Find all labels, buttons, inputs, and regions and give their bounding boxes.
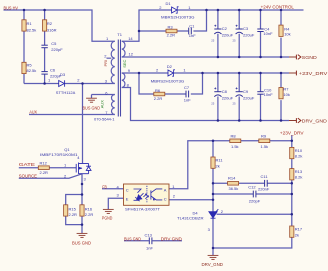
svg-text:10nF: 10nF [263, 31, 273, 36]
svg-text:PRI: PRI [103, 60, 108, 67]
svg-text:10k: 10k [283, 92, 289, 97]
svg-text:36.5k: 36.5k [229, 186, 239, 191]
svg-text:TL431CDBZR: TL431CDBZR [177, 215, 204, 220]
svg-text:MBRS2H100T3G: MBRS2H100T3G [151, 79, 185, 84]
svg-text:1nF: 1nF [146, 245, 153, 250]
svg-text:BUS GND: BUS GND [124, 237, 141, 242]
svg-text:DRV_GND: DRV_GND [202, 262, 224, 267]
svg-text:2k: 2k [216, 163, 220, 168]
svg-text:R5: R5 [27, 62, 33, 67]
svg-text:D2: D2 [167, 64, 173, 69]
svg-text:+23V_DRV: +23V_DRV [299, 71, 328, 76]
svg-text:R6: R6 [155, 88, 161, 93]
svg-text:C13: C13 [145, 232, 153, 237]
svg-text:PGND: PGND [102, 216, 113, 221]
svg-text:T1: T1 [117, 32, 122, 37]
svg-text:2.2R: 2.2R [167, 32, 176, 37]
svg-text:C12: C12 [248, 184, 256, 189]
svg-text:R2: R2 [47, 21, 53, 26]
svg-text:SFH617A-3X007T: SFH617A-3X007T [125, 206, 161, 211]
svg-text:C: C [164, 196, 167, 201]
svg-text:14: 14 [128, 36, 133, 41]
svg-text:C7: C7 [184, 85, 190, 90]
svg-text:10k: 10k [284, 32, 290, 37]
svg-text:AUX: AUX [100, 100, 105, 109]
svg-text:BUS HV: BUS HV [4, 5, 19, 10]
svg-text:R7: R7 [283, 87, 289, 92]
svg-text:220uF: 220uF [243, 32, 255, 37]
svg-text:070-5644-1: 070-5644-1 [94, 116, 115, 121]
svg-text:R14: R14 [228, 176, 236, 181]
svg-text:+23V_DRV: +23V_DRV [280, 131, 304, 136]
svg-text:C2: C2 [222, 26, 228, 31]
svg-text:C9: C9 [243, 89, 249, 94]
svg-text:BUS GND: BUS GND [72, 240, 91, 245]
svg-text:E: E [126, 196, 129, 201]
svg-text:FB: FB [102, 184, 107, 189]
svg-text:DRV GND: DRV GND [161, 237, 182, 242]
svg-text:D1: D1 [166, 1, 172, 6]
svg-text:D3: D3 [60, 72, 66, 77]
svg-text:R12: R12 [40, 160, 48, 165]
svg-text:1nF: 1nF [184, 98, 191, 103]
svg-text:IMBF170R1K0M1: IMBF170R1K0M1 [40, 152, 79, 157]
svg-text:R8: R8 [231, 134, 237, 139]
svg-text:220uF: 220uF [243, 95, 255, 100]
svg-text:2.2R: 2.2R [40, 170, 49, 175]
svg-text:25: 25 [233, 102, 237, 106]
svg-text:A: A [164, 187, 167, 192]
svg-text:+24V CONTROL: +24V CONTROL [261, 5, 295, 10]
svg-text:R11: R11 [216, 157, 224, 162]
svg-text:220uF: 220uF [222, 95, 234, 100]
svg-text:82.5k: 82.5k [27, 28, 37, 33]
svg-text:R3: R3 [168, 24, 174, 29]
svg-text:R10: R10 [295, 148, 303, 153]
svg-text:SOURCE: SOURCE [19, 173, 37, 178]
svg-text:2.2R: 2.2R [154, 96, 163, 101]
svg-text:STTH112A: STTH112A [56, 90, 76, 95]
svg-text:1.5k: 1.5k [231, 144, 239, 149]
svg-text:R15: R15 [69, 206, 77, 211]
svg-text:GATE: GATE [19, 162, 35, 167]
svg-text:C1: C1 [189, 24, 195, 29]
svg-text:10nF: 10nF [264, 92, 274, 97]
svg-text:2k: 2k [295, 232, 299, 237]
svg-text:220pF: 220pF [51, 47, 63, 52]
svg-text:12: 12 [129, 52, 134, 57]
svg-text:8.2k: 8.2k [295, 153, 303, 158]
svg-text:SGND: SGND [302, 55, 318, 60]
svg-text:C3: C3 [243, 26, 249, 31]
svg-text:R1: R1 [27, 21, 33, 26]
svg-text:MBRS2H100T3G: MBRS2H100T3G [161, 15, 195, 20]
svg-text:2.2R: 2.2R [85, 212, 94, 217]
svg-text:C6: C6 [50, 67, 56, 72]
svg-text:25: 25 [211, 39, 215, 43]
svg-text:DRV_GND: DRV_GND [302, 118, 328, 123]
svg-text:25: 25 [233, 39, 237, 43]
svg-text:R13: R13 [295, 169, 303, 174]
svg-text:220uF: 220uF [222, 32, 234, 37]
svg-text:R16: R16 [85, 206, 93, 211]
svg-text:316R: 316R [47, 28, 57, 33]
svg-text:BUS GND: BUS GND [83, 105, 101, 110]
svg-text:2.2R: 2.2R [69, 212, 78, 217]
svg-text:1nF: 1nF [189, 33, 196, 38]
svg-text:SEC: SEC [122, 59, 127, 67]
svg-text:220pF: 220pF [249, 198, 261, 203]
svg-text:C11: C11 [261, 174, 269, 179]
svg-text:8.2k: 8.2k [295, 174, 303, 179]
svg-text:R9: R9 [261, 134, 267, 139]
svg-text:1.5k: 1.5k [261, 144, 269, 149]
svg-text:C: C [126, 187, 129, 192]
svg-text:C5: C5 [51, 41, 57, 46]
svg-text:C8: C8 [222, 89, 228, 94]
svg-text:AUX: AUX [29, 110, 37, 115]
svg-text:25: 25 [211, 102, 215, 106]
svg-text:R17: R17 [295, 227, 303, 232]
svg-text:82.5k: 82.5k [27, 68, 37, 73]
svg-text:220nF: 220nF [258, 186, 270, 191]
